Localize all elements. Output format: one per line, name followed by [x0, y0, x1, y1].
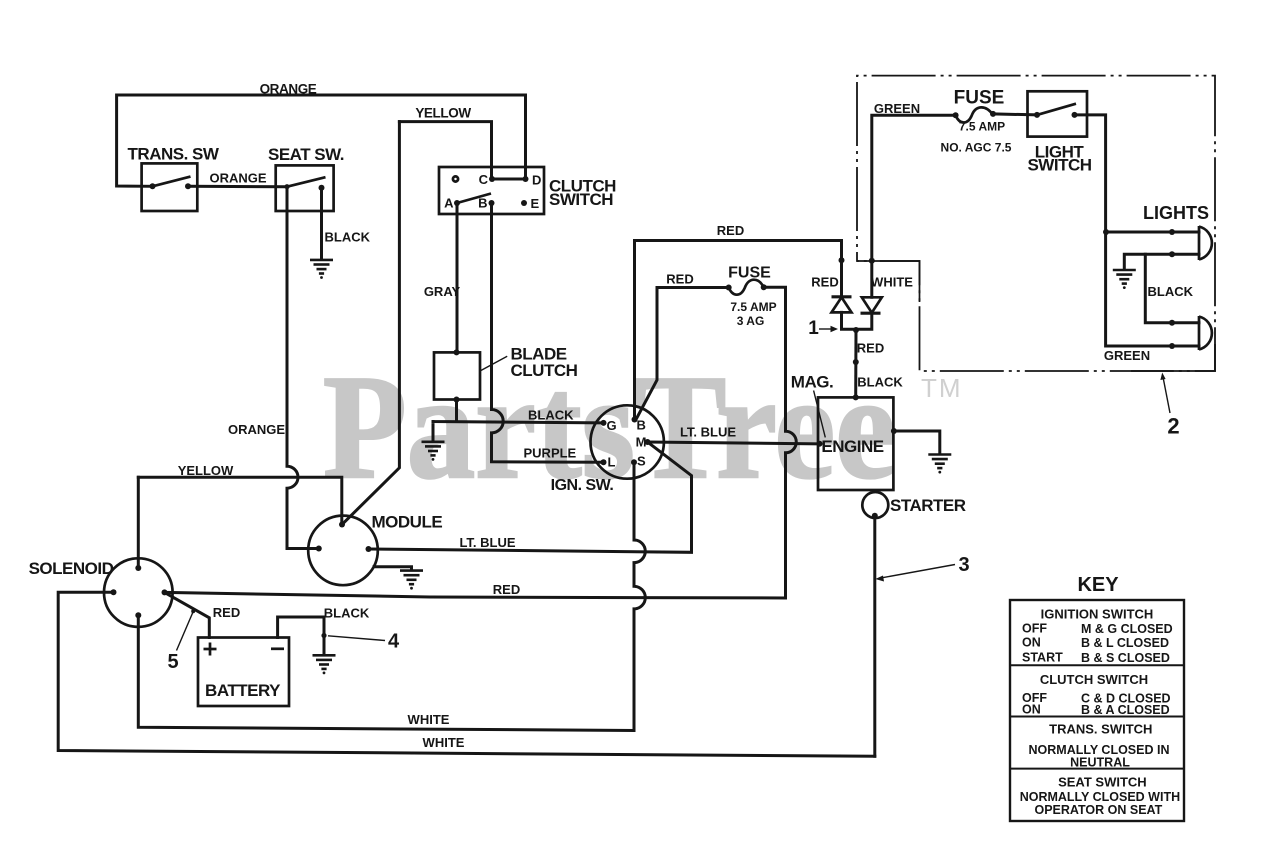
- solenoid right dot: [162, 589, 168, 595]
- svg-text:A: A: [444, 196, 454, 211]
- svg-text:B & L CLOSED: B & L CLOSED: [1081, 636, 1169, 650]
- dot color change on red diode drop: [839, 257, 845, 263]
- module right dot: [366, 546, 372, 552]
- wire lamp1 lower terminal to ground and black drop: [1124, 254, 1199, 269]
- svg-text:5: 5: [167, 651, 178, 673]
- battery box: [198, 638, 289, 707]
- wire clutch B down with hop over black then PURPLE to ign L: [492, 203, 604, 462]
- clutch sw open terminal circle: [453, 176, 458, 181]
- fuse top left dot: [953, 112, 959, 118]
- seat sw right contact dot: [319, 185, 325, 191]
- transmission switch TRANS. SW box: [142, 163, 198, 211]
- svg-text:G: G: [607, 418, 617, 433]
- engine top terminal dot: [853, 394, 859, 400]
- pointer arrow from 3 to starter wire: [875, 565, 955, 582]
- svg-text:NEUTRAL: NEUTRAL: [1070, 756, 1130, 770]
- wire diode outputs joined: [842, 312, 872, 329]
- svg-text:S: S: [637, 454, 646, 469]
- dot on black ground lead: [321, 633, 326, 638]
- wire ORANGE top run: trans sw left terminal up and across to clutch switch D: [117, 95, 526, 186]
- svg-text:SEAT SW.: SEAT SW.: [268, 145, 344, 164]
- ignition switch IGN. SW circle: [591, 405, 664, 478]
- fuse top right dot: [990, 111, 996, 117]
- node dot lights feed: [1103, 229, 1109, 235]
- ground blade clutch: [422, 442, 445, 461]
- svg-text:BLACK: BLACK: [857, 375, 903, 390]
- svg-text:3: 3: [958, 554, 969, 576]
- engine box: [818, 397, 893, 490]
- ground module: [400, 571, 423, 590]
- wire WHITE starter down: [873, 516, 876, 757]
- pointer line to BLADE CLUTCH label: [481, 356, 507, 370]
- svg-text:SWITCH: SWITCH: [549, 190, 613, 209]
- svg-text:LT. BLUE: LT. BLUE: [459, 535, 515, 550]
- wire BLACK blade clutch to ign G with ground branch: [433, 400, 604, 442]
- svg-text:BLACK: BLACK: [325, 230, 371, 245]
- wire GRAY clutch A to blade clutch: [456, 203, 459, 352]
- svg-text:ORANGE: ORANGE: [260, 82, 317, 97]
- svg-text:7.5 AMP: 7.5 AMP: [959, 120, 1005, 134]
- wire to lamp1 upper terminal: [1106, 231, 1199, 234]
- svg-text:7.5 AMP: 7.5 AMP: [730, 300, 776, 314]
- clutch sw D dot: [523, 176, 529, 182]
- svg-text:START: START: [1022, 651, 1063, 665]
- ign sw B dot: [632, 417, 638, 423]
- solenoid top dot: [135, 565, 141, 571]
- svg-text:RED: RED: [717, 223, 744, 238]
- svg-text:CLUTCH SWITCH: CLUTCH SWITCH: [1040, 672, 1148, 687]
- svg-text:NORMALLY CLOSED WITH: NORMALLY CLOSED WITH: [1020, 790, 1180, 804]
- lamp2 upper terminal dot: [1169, 320, 1175, 326]
- svg-text:IGNITION SWITCH: IGNITION SWITCH: [1041, 607, 1154, 622]
- wire YELLOW vertical down to module top: [342, 122, 399, 525]
- svg-text:TM: TM: [921, 373, 963, 403]
- svg-text:YELLOW: YELLOW: [178, 463, 234, 478]
- solenoid bottom dot: [135, 612, 141, 618]
- solenoid left dot: [111, 589, 117, 595]
- svg-text:GREEN: GREEN: [1104, 348, 1150, 363]
- fuse F1 7.5A AGC symbol: [956, 107, 993, 122]
- battery minus symbol: [271, 647, 284, 650]
- svg-text:ON: ON: [1022, 636, 1041, 650]
- boundary notch solid segments: [857, 261, 920, 302]
- svg-text:TRANS. SW: TRANS. SW: [128, 145, 220, 164]
- svg-text:YELLOW: YELLOW: [415, 106, 471, 121]
- blade clutch top dot: [454, 349, 460, 355]
- node dot green wire at boundary: [869, 258, 875, 264]
- wire YELLOW top: from vertical to clutch switch C: [399, 122, 491, 179]
- wire WHITE solenoid bottom to ign S wire: [138, 615, 634, 730]
- pointer arrow from 1 to diode junction: [819, 326, 838, 332]
- wire RED solenoid to battery plus: [165, 592, 210, 637]
- svg-text:ORANGE: ORANGE: [209, 171, 266, 186]
- svg-text:B: B: [478, 196, 487, 211]
- dot color change red/black: [853, 359, 859, 365]
- svg-text:OPERATOR ON SEAT: OPERATOR ON SEAT: [1035, 803, 1163, 817]
- svg-text:B & A CLOSED: B & A CLOSED: [1081, 703, 1170, 717]
- svg-text:SEAT SWITCH: SEAT SWITCH: [1058, 775, 1147, 790]
- wire RED/BLACK from diode junction to engine mag: [854, 329, 857, 397]
- module left dot: [316, 546, 322, 552]
- trans sw blade: [153, 177, 191, 187]
- svg-text:FUSE: FUSE: [728, 265, 771, 282]
- svg-text:SOLENOID: SOLENOID: [29, 559, 114, 578]
- wire BLACK between lamps: [1145, 254, 1199, 322]
- svg-text:M & G CLOSED: M & G CLOSED: [1081, 622, 1173, 636]
- svg-text:ON: ON: [1022, 703, 1041, 717]
- svg-text:D: D: [532, 173, 541, 188]
- wire yellow into solenoid top: [137, 477, 140, 568]
- clutch sw B dot: [489, 200, 495, 206]
- wire WHITE solenoid left to starter: [58, 592, 875, 756]
- wire from ign S down with two hops to white wire: [634, 462, 645, 730]
- svg-text:MODULE: MODULE: [372, 513, 443, 532]
- module circle: [308, 516, 378, 586]
- lamp1 lower terminal dot: [1169, 251, 1175, 257]
- wire ORANGE seat sw pivot down to module left (with hop over yellow): [287, 187, 319, 549]
- node junction dot below diodes: [853, 327, 859, 333]
- svg-text:NO. AGC 7.5: NO. AGC 7.5: [941, 141, 1012, 155]
- wire LT. BLUE module to ign M via corner: [369, 442, 692, 552]
- wire BLACK battery minus to ground: [278, 617, 324, 654]
- battery plus symbol: [204, 643, 217, 656]
- light switch blade: [1037, 104, 1076, 115]
- key table divider 2: [1010, 716, 1184, 718]
- svg-text:SWITCH: SWITCH: [1027, 156, 1091, 175]
- blade clutch box: [434, 352, 480, 399]
- wire light switch down to lamp2 lower terminal: [1075, 115, 1200, 346]
- svg-text:GREEN: GREEN: [874, 101, 920, 116]
- lamp L1: [1199, 226, 1212, 260]
- svg-text:BATTERY: BATTERY: [205, 681, 281, 700]
- ground lights: [1113, 270, 1136, 289]
- wire GREEN from diode junction up to fuse: [872, 115, 956, 297]
- clutch sw E dot: [521, 200, 527, 206]
- key table box: [1010, 600, 1184, 821]
- svg-text:PURPLE: PURPLE: [524, 446, 577, 461]
- wire RED solenoid to fuse drop: [165, 592, 786, 598]
- svg-text:LIGHTS: LIGHTS: [1143, 203, 1209, 223]
- fuse F2 7.5A 3AG symbol: [729, 280, 764, 295]
- seat sw pivot dot: [284, 184, 289, 189]
- wire RED ign B up and over to diode junction: [635, 241, 842, 420]
- fuse right dot: [761, 284, 767, 290]
- lamp2 lower terminal dot: [1169, 343, 1175, 349]
- wire RED fuse branch: B diagonal up to fuse left: [636, 288, 729, 420]
- svg-text:1: 1: [808, 318, 819, 339]
- starter circle: [862, 492, 888, 518]
- ign sw L dot: [601, 459, 607, 465]
- diode D1 RED (cathode bar up): [832, 297, 852, 313]
- svg-text:CLUTCH: CLUTCH: [511, 361, 578, 380]
- lamp L2: [1199, 316, 1212, 350]
- wire ORANGE between trans sw and seat sw: [188, 185, 287, 188]
- svg-text:TRANS. SWITCH: TRANS. SWITCH: [1049, 722, 1152, 737]
- engine left terminal dot: [817, 441, 823, 447]
- wire fuse to light switch: [993, 114, 1037, 115]
- fuse left dot: [726, 285, 732, 291]
- svg-text:RED: RED: [493, 582, 520, 597]
- trans sw right contact dot: [185, 183, 191, 189]
- pointer from 4 to black ground lead: [328, 636, 385, 641]
- engine right terminal dot: [891, 428, 897, 434]
- dash-dot accessory boundary box (lights kit): [857, 76, 1215, 371]
- svg-text:STARTER: STARTER: [890, 496, 966, 515]
- svg-text:ENGINE: ENGINE: [821, 437, 883, 456]
- svg-text:B: B: [637, 418, 646, 433]
- ign sw M dot: [645, 439, 651, 445]
- wire YELLOW solenoid to module top: [138, 477, 341, 524]
- pointer from 2 to boundary: [1160, 373, 1170, 414]
- light switch box: [1028, 91, 1088, 136]
- svg-text:LT. BLUE: LT. BLUE: [680, 425, 736, 440]
- light switch left dot: [1034, 112, 1040, 118]
- diode D2 WHITE (cathode bar down): [861, 297, 882, 313]
- key table divider 1: [1010, 664, 1184, 666]
- starter bottom dot: [872, 513, 878, 519]
- wire engine right to ground: [893, 431, 939, 454]
- pointer MAG to engine: [814, 391, 826, 438]
- svg-text:RED: RED: [811, 275, 838, 290]
- clutch sw blade C-D closed: [492, 178, 526, 181]
- seat switch SEAT SW. box: [276, 165, 334, 211]
- ign sw G dot: [601, 420, 607, 426]
- svg-text:C: C: [479, 172, 489, 187]
- svg-text:IGN. SW.: IGN. SW.: [551, 477, 614, 494]
- wire BLACK seat sw contact to ground: [320, 188, 323, 259]
- wire LT. BLUE ign M to engine: [648, 442, 819, 444]
- svg-text:WHITE: WHITE: [423, 735, 465, 750]
- svg-text:4: 4: [388, 631, 400, 653]
- trans sw left contact dot: [150, 183, 156, 189]
- svg-text:2: 2: [1167, 414, 1179, 439]
- clutch switch box: [439, 167, 544, 214]
- blade clutch bottom dot: [454, 397, 460, 403]
- wire RED from fuse right down to battery red wire (hop over lt blue): [764, 287, 797, 598]
- svg-text:3 AG: 3 AG: [737, 314, 765, 328]
- svg-text:GRAY: GRAY: [424, 284, 461, 299]
- clutch sw A dot: [454, 200, 460, 206]
- svg-text:MAG.: MAG.: [791, 373, 833, 392]
- clutch sw blade from A: [457, 194, 491, 204]
- svg-text:B & S CLOSED: B & S CLOSED: [1081, 651, 1170, 665]
- svg-text:KEY: KEY: [1077, 574, 1119, 596]
- svg-text:FUSE: FUSE: [954, 88, 1005, 109]
- ground engine: [928, 455, 951, 474]
- svg-text:WHITE: WHITE: [408, 712, 450, 727]
- module top dot: [339, 522, 345, 528]
- svg-text:M: M: [636, 435, 647, 450]
- lamp1 upper terminal dot: [1169, 229, 1175, 235]
- key table divider 3: [1010, 768, 1184, 770]
- light switch right dot: [1072, 112, 1078, 118]
- svg-text:BLACK: BLACK: [324, 606, 370, 621]
- svg-text:E: E: [531, 196, 540, 211]
- pointer from 5 to red wire: [177, 609, 196, 650]
- svg-text:L: L: [608, 455, 616, 470]
- seat sw blade: [287, 177, 326, 187]
- boundary bottom-right solid corner: [1131, 344, 1215, 371]
- svg-text:RED: RED: [857, 341, 884, 356]
- module ground stub: [374, 567, 412, 570]
- ign sw S dot: [631, 459, 637, 465]
- svg-text:RED: RED: [213, 605, 240, 620]
- svg-text:ORANGE: ORANGE: [228, 422, 285, 437]
- svg-text:OFF: OFF: [1022, 622, 1047, 636]
- solenoid circle: [104, 558, 173, 627]
- svg-text:WHITE: WHITE: [871, 275, 913, 290]
- clutch sw C dot: [489, 176, 495, 182]
- svg-text:RED: RED: [666, 272, 693, 287]
- ground battery: [313, 655, 336, 674]
- ground seat switch: [310, 260, 333, 279]
- svg-text:BLACK: BLACK: [528, 408, 574, 423]
- svg-text:BLACK: BLACK: [1148, 284, 1194, 299]
